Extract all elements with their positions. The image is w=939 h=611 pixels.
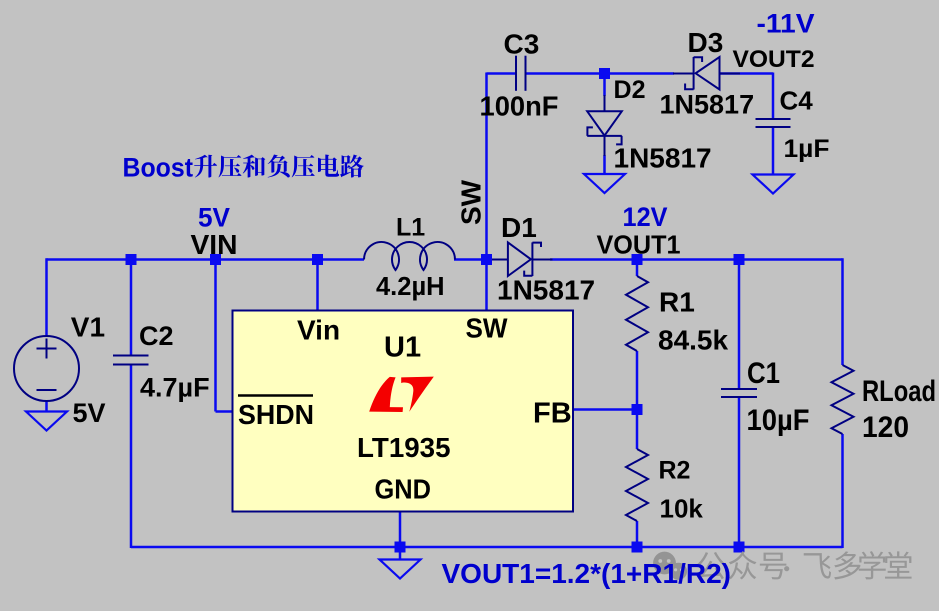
svg-text:SHDN: SHDN: [238, 399, 314, 430]
capacitor C2: [113, 356, 149, 365]
svg-text:SW: SW: [466, 313, 509, 344]
wire SHDN horizontal: [216, 410, 234, 413]
wire C4 bottom: [772, 127, 775, 174]
svg-text:4.2µH: 4.2µH: [376, 273, 445, 301]
svg-text:100nF: 100nF: [480, 91, 559, 122]
diode D1 1N5817: [487, 242, 553, 276]
capacitor C1: [721, 389, 757, 397]
inductor L1: [364, 242, 455, 270]
LT logo (red): [369, 377, 403, 412]
ground V1: [26, 412, 67, 431]
node C1 ground junction: [734, 542, 745, 553]
svg-text:C3: C3: [504, 29, 540, 60]
svg-text:120: 120: [862, 411, 909, 444]
svg-text:V1: V1: [71, 312, 105, 343]
svg-text:1N5817: 1N5817: [497, 275, 595, 306]
wire FB: [573, 408, 637, 411]
wire VIN rail: [47, 258, 365, 261]
wire RLoad bottom: [841, 434, 844, 548]
watermark text: [697, 551, 911, 579]
svg-text:R1: R1: [659, 287, 695, 318]
wire node to D2: [603, 74, 606, 97]
ground C4: [753, 175, 794, 194]
svg-text:Vin: Vin: [297, 315, 340, 346]
svg-text:D2: D2: [614, 76, 646, 104]
op-amp U1 LT1935 box: [233, 311, 574, 512]
svg-text:1N5817: 1N5817: [614, 143, 712, 174]
capacitor C3: [516, 56, 526, 91]
node SHDN junction: [210, 254, 221, 265]
watermark icon circles: [653, 552, 687, 580]
node C2/VIN junction: [126, 254, 137, 265]
wire R2 top: [636, 410, 639, 450]
wire R2 bottom: [636, 521, 639, 547]
svg-text:VIN: VIN: [191, 229, 238, 260]
wire SHDN vertical: [214, 260, 217, 412]
svg-text:VOUT2: VOUT2: [733, 46, 815, 73]
voltage source V1: [14, 336, 79, 401]
wire Vin pin: [316, 260, 319, 312]
capacitor C4: [756, 119, 791, 127]
svg-text:10k: 10k: [660, 494, 704, 524]
svg-text:-11V: -11V: [757, 9, 815, 39]
wire V1 bottom: [45, 401, 48, 412]
wire C2 bottom: [130, 364, 133, 549]
svg-text:10µF: 10µF: [747, 404, 810, 437]
svg-text:C2: C2: [139, 321, 174, 351]
svg-text:1µF: 1µF: [784, 135, 830, 163]
SHDN overline: [238, 394, 313, 397]
svg-text:84.5k: 84.5k: [658, 325, 728, 356]
wire C1 bottom: [738, 397, 741, 547]
svg-text:4.7µF: 4.7µF: [140, 373, 210, 403]
svg-text:GND: GND: [375, 474, 432, 505]
resistor R2: [626, 449, 648, 521]
wire R1 to FB node: [636, 351, 639, 410]
wire R1 top: [636, 260, 639, 277]
svg-text:C4: C4: [780, 86, 814, 116]
svg-text:D3: D3: [688, 27, 724, 58]
title Chinese characters: [194, 154, 364, 177]
wire C3 to D3: [527, 72, 675, 75]
diode D3 1N5817: [673, 57, 740, 90]
node C1/VOUT1 junction: [734, 254, 745, 265]
svg-text:VOUT1=1.2*(1+R1/R2): VOUT1=1.2*(1+R1/R2): [442, 558, 731, 589]
wire SW to C3: [487, 72, 516, 75]
svg-text:L1: L1: [396, 214, 425, 242]
wire C1 top: [738, 260, 741, 390]
svg-text:5V: 5V: [198, 203, 230, 233]
node R2 ground junction: [632, 542, 643, 553]
svg-text:U1: U1: [384, 332, 421, 364]
wire VOUT1 rail: [550, 258, 843, 261]
node GND junction: [395, 542, 406, 553]
svg-text:5V: 5V: [73, 398, 106, 428]
svg-text:FB: FB: [533, 398, 572, 430]
wire GND pin: [399, 512, 402, 560]
wire D3 to C4 corner: [720, 72, 774, 75]
wire L1 to SW node: [454, 258, 488, 261]
node D2 junction: [599, 68, 610, 79]
ground main: [380, 560, 421, 579]
svg-text:R2: R2: [659, 457, 691, 485]
node R1/VOUT1 junction: [632, 254, 643, 265]
svg-text:LT1935: LT1935: [357, 432, 451, 463]
svg-text:1N5817: 1N5817: [660, 90, 755, 120]
svg-text:12V: 12V: [623, 202, 668, 232]
svg-text:Boost: Boost: [123, 152, 194, 182]
wire C4 top: [772, 73, 775, 120]
node FB junction: [632, 404, 643, 415]
svg-text:VOUT1: VOUT1: [597, 230, 681, 260]
wire C2 top: [130, 260, 133, 357]
wire RLoad top: [841, 258, 844, 365]
resistor RLoad: [832, 365, 854, 434]
ground D2: [584, 174, 625, 193]
wire D2 to ground: [603, 155, 606, 174]
svg-text:D1: D1: [501, 212, 537, 243]
wire SW vertical: [485, 73, 488, 312]
svg-text:C1: C1: [747, 357, 780, 390]
svg-text:SW: SW: [456, 179, 487, 225]
wire V1 top: [45, 258, 48, 336]
resistor R1: [626, 276, 648, 351]
node Vin pin junction: [312, 254, 323, 265]
wire ground rail: [131, 546, 843, 549]
diode D2 1N5817: [587, 95, 622, 156]
svg-text:RLoad: RLoad: [862, 375, 936, 408]
node SW junction: [481, 254, 492, 265]
